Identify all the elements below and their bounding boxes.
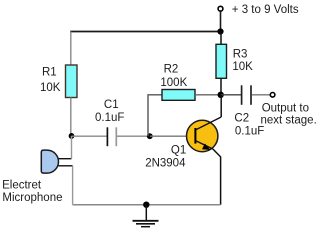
svg-text:R3: R3 — [233, 49, 248, 61]
capacitor C1 — [106, 127, 108, 146]
svg-text:next stage.: next stage. — [261, 115, 317, 127]
wire junction to C2 — [221, 94, 241, 96]
wire R1 bottom to mic junction — [70, 98, 72, 137]
transistor Q1 — [187, 117, 222, 152]
svg-text:0.1uF: 0.1uF — [95, 112, 124, 124]
wire mic junction to C1 — [72, 135, 107, 137]
wire left vertical to R1 — [70, 32, 72, 66]
wire R3 top lead — [220, 32, 222, 45]
electret microphone — [41, 150, 58, 173]
resistor R1 — [66, 65, 78, 98]
wire mic top lead vertical — [71, 136, 73, 159]
wire R3 bottom lead — [220, 78, 222, 95]
wire emitter to bottom rail — [213, 149, 221, 205]
svg-text:+ 3 to 9 Volts: + 3 to 9 Volts — [232, 4, 299, 16]
wire R2 right lead — [195, 94, 221, 96]
svg-text:Q1: Q1 — [171, 144, 186, 156]
output terminal — [270, 93, 275, 98]
svg-text:0.1uF: 0.1uF — [235, 126, 264, 138]
wire C1 to base junction — [117, 135, 150, 137]
node supply junction — [217, 28, 223, 34]
wire base junction to Q1 base — [150, 135, 195, 137]
power terminal — [218, 6, 223, 11]
node mic junction — [69, 133, 75, 139]
svg-text:C2: C2 — [234, 112, 249, 124]
wire mic bottom lead — [58, 165, 72, 167]
wire collector vertical — [220, 95, 222, 117]
wire bottom rail — [73, 204, 221, 206]
node base junction — [147, 133, 153, 139]
svg-text:10K: 10K — [40, 82, 61, 94]
svg-text:C1: C1 — [104, 99, 119, 111]
svg-text:Microphone: Microphone — [2, 192, 62, 204]
svg-text:2N3904: 2N3904 — [145, 158, 186, 170]
wire mic bottom lead vertical — [72, 166, 74, 205]
svg-text:R2: R2 — [164, 64, 179, 76]
wire top rail — [70, 31, 220, 33]
node ground junction — [143, 202, 149, 208]
ground — [133, 205, 159, 227]
svg-text:Electret: Electret — [2, 179, 42, 191]
svg-text:10K: 10K — [232, 61, 253, 73]
svg-text:Output to: Output to — [262, 103, 309, 115]
node collector junction — [218, 92, 224, 98]
wire R2 left lead — [148, 95, 162, 136]
wire mic top lead — [58, 158, 71, 160]
svg-text:100K: 100K — [160, 77, 187, 89]
capacitor C2 — [241, 85, 243, 105]
wire power terminal to junction — [220, 12, 222, 32]
resistor R2 — [162, 90, 195, 101]
resistor R3 — [216, 44, 227, 78]
svg-text:R1: R1 — [42, 67, 57, 79]
wire C2 to output — [252, 94, 270, 96]
